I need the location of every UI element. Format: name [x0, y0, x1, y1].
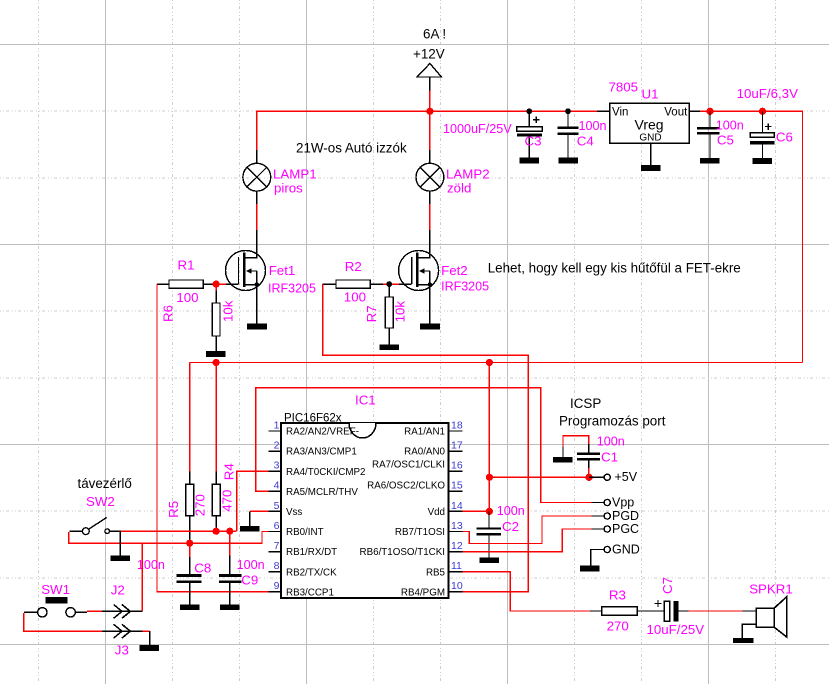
ground (R6) — [206, 351, 226, 357]
capacitor C2 (100n) — [477, 511, 502, 557]
label IC1 — [355, 393, 376, 408]
ground (C1) — [553, 457, 573, 463]
svg-text:C5: C5 — [717, 133, 734, 148]
svg-text:C1: C1 — [601, 449, 618, 464]
label Fet2 — [441, 263, 489, 294]
node C1 +5V junction — [585, 474, 592, 481]
svg-text:IRF3205: IRF3205 — [441, 280, 489, 294]
wire MCLR net (pin4 to Vpp) — [256, 388, 592, 503]
label PIC16F62x — [284, 413, 342, 425]
ground (SW2) — [111, 531, 130, 561]
svg-text:15: 15 — [451, 480, 463, 492]
capacitor C3 (1000uF/25V) — [517, 111, 542, 157]
svg-text:1: 1 — [274, 419, 280, 431]
svg-text:Fet1: Fet1 — [269, 263, 296, 278]
label 7805 — [609, 80, 639, 95]
svg-text:R3: R3 — [609, 588, 626, 603]
svg-text:U1: U1 — [642, 87, 659, 102]
svg-text:Lehet, hogy kell egy kis hűtőf: Lehet, hogy kell egy kis hűtőfül a FET-e… — [488, 260, 741, 275]
label U1 — [642, 87, 659, 102]
label C5 — [717, 133, 734, 148]
svg-text:J3: J3 — [115, 642, 129, 657]
wire SW1 to J3 — [24, 613, 103, 631]
node Fet2 gate junction — [386, 281, 392, 287]
svg-text:100: 100 — [344, 290, 366, 305]
svg-text:Vpp: Vpp — [612, 496, 634, 510]
label SPKR1 — [749, 581, 793, 596]
label R6 — [161, 300, 236, 322]
wire RB6 net (pin12 to PGC) — [462, 529, 591, 552]
pin Vpp — [592, 496, 635, 510]
switch SW2 — [70, 517, 121, 534]
svg-text:GND: GND — [639, 133, 661, 144]
label C6 — [776, 130, 793, 145]
label C1 — [601, 449, 618, 464]
svg-text:PGC: PGC — [612, 522, 639, 536]
wire R1 to Fet1 gate — [216, 283, 226, 285]
svg-text:Vdd: Vdd — [428, 507, 445, 518]
ground (C6) — [753, 158, 773, 164]
label 100n (C5) — [716, 119, 744, 133]
svg-text:100n: 100n — [579, 119, 607, 133]
node R4 bottom junction — [213, 528, 220, 535]
svg-text:Fet2: Fet2 — [441, 263, 468, 278]
label 1000uF/25V — [443, 122, 512, 136]
pin GND (ICSP) — [591, 543, 640, 566]
label C2 — [502, 519, 519, 534]
svg-text:RA1/AN1: RA1/AN1 — [404, 427, 445, 438]
node C6 junction — [759, 108, 766, 115]
ground (J3) — [140, 631, 160, 651]
svg-text:C6: C6 — [776, 130, 793, 145]
svg-text:RA7/OSC1/CLKI: RA7/OSC1/CLKI — [372, 460, 445, 471]
svg-text:2: 2 — [274, 440, 280, 452]
regulator U1 7805 — [597, 103, 701, 165]
label SW2 — [86, 494, 115, 509]
svg-text:PIC16F62x: PIC16F62x — [284, 413, 342, 425]
label C9 — [241, 572, 258, 587]
resistor R7 (10k) — [385, 284, 393, 344]
svg-text:C8: C8 — [194, 560, 211, 575]
svg-text:11: 11 — [451, 560, 462, 572]
svg-text:100n: 100n — [597, 434, 625, 448]
ground (Vss) — [240, 511, 260, 531]
svg-text:10uF/6,3V: 10uF/6,3V — [737, 86, 798, 101]
svg-text:RB7/T1OSI: RB7/T1OSI — [395, 527, 445, 538]
label R1 — [176, 257, 198, 305]
svg-text:C4: C4 — [577, 134, 594, 149]
svg-text:6A !: 6A ! — [423, 27, 446, 42]
ground (SPKR1) — [733, 638, 753, 643]
node C9 top junction — [226, 528, 233, 535]
wire RA4 net (pin3 to switch line) — [237, 471, 269, 531]
wire C7 to SPKR1 — [689, 610, 743, 612]
svg-text:RA5/MCLR/THV: RA5/MCLR/THV — [286, 487, 358, 498]
svg-text:9: 9 — [274, 580, 280, 592]
svg-text:10: 10 — [451, 580, 463, 592]
svg-text:RB5: RB5 — [426, 567, 446, 578]
svg-text:270: 270 — [607, 619, 629, 634]
svg-text:RA2/AN2/VREF-: RA2/AN2/VREF- — [286, 427, 359, 438]
svg-text:távezérlő: távezérlő — [78, 476, 132, 491]
svg-text:C2: C2 — [502, 519, 519, 534]
node Fet1 gate junction — [213, 281, 220, 288]
label 100n (C9) — [237, 558, 265, 572]
label 21W-os Auto izzok — [296, 140, 407, 155]
wire RB4 net (pin10 to R2) — [323, 284, 529, 592]
svg-text:LAMP1: LAMP1 — [273, 167, 317, 182]
svg-text:SW2: SW2 — [86, 494, 115, 509]
svg-text:17: 17 — [451, 440, 463, 452]
svg-text:zöld: zöld — [447, 181, 471, 196]
svg-text:R4: R4 — [222, 463, 237, 480]
node C5 junction — [706, 108, 713, 115]
svg-text:100n: 100n — [237, 558, 265, 572]
svg-text:470: 470 — [219, 490, 234, 512]
wire RB0 net (pin6 jog) — [69, 532, 269, 544]
svg-text:RB4/PGM: RB4/PGM — [401, 587, 445, 598]
transistor Fet2 IRF3205 — [399, 230, 439, 323]
label C4 — [577, 134, 594, 149]
svg-text:IC1: IC1 — [355, 393, 376, 408]
resistor R6 (10k) — [212, 284, 220, 351]
wire RB5 net (pin11 to R3) — [462, 572, 590, 611]
svg-text:PGD: PGD — [612, 509, 639, 523]
label LAMP1 — [273, 167, 317, 196]
wire +5V to ICSP — [489, 476, 589, 478]
wire +12V bus left (to 7805 Vin) — [257, 111, 597, 151]
transistor Fet1 IRF3205 — [226, 230, 266, 323]
svg-text:21W-os Autó izzók: 21W-os Autó izzók — [296, 140, 407, 155]
svg-text:GND: GND — [612, 543, 640, 557]
label C8 — [194, 560, 211, 575]
label ICSP — [570, 396, 601, 411]
connector J3 — [102, 624, 142, 638]
label Programozas port — [559, 414, 666, 429]
svg-text:R7: R7 — [364, 305, 379, 322]
svg-text:RA6/OSC2/CLKO: RA6/OSC2/CLKO — [367, 480, 445, 491]
svg-text:ICSP: ICSP — [570, 396, 601, 411]
supply +12V symbol — [413, 47, 445, 92]
svg-text:RA4/T0CKI/CMP2: RA4/T0CKI/CMP2 — [286, 467, 366, 478]
label 10uF/6,3V — [737, 86, 798, 101]
svg-text:3: 3 — [274, 460, 280, 472]
svg-text:Programozás port: Programozás port — [559, 414, 666, 429]
svg-text:18: 18 — [451, 419, 463, 431]
pin PGC — [592, 522, 640, 536]
svg-text:RB6/T1OSO/T1CKI: RB6/T1OSO/T1CKI — [360, 547, 445, 558]
svg-text:7805: 7805 — [609, 80, 639, 95]
svg-text:100: 100 — [176, 290, 198, 305]
ground (C5) — [700, 158, 720, 164]
node R5 bottom junction — [186, 540, 193, 547]
resistor R2 (100) — [323, 280, 383, 288]
node Vdd riser junction — [486, 359, 493, 366]
svg-text:R6: R6 — [161, 305, 176, 322]
svg-text:Vreg: Vreg — [635, 117, 664, 133]
ground (C9) — [220, 604, 240, 610]
resistor R5 (270) — [186, 472, 194, 544]
IC U1 PIC16F62x body — [269, 423, 463, 598]
svg-text:10k: 10k — [221, 300, 236, 322]
node +5V rail tap — [486, 474, 493, 481]
node C4 junction — [565, 108, 571, 114]
wire SW1 to J2 — [87, 610, 103, 612]
svg-text:R1: R1 — [178, 257, 195, 272]
capacitor C9 (100n) — [219, 531, 242, 604]
resistor R3 (270) — [590, 607, 650, 616]
pin PGD — [592, 509, 640, 523]
wire Vss (pin5) — [250, 510, 269, 512]
label R7 — [364, 301, 408, 323]
svg-text:+12V: +12V — [413, 47, 445, 62]
label R4 — [219, 463, 236, 512]
svg-text:Vin: Vin — [612, 106, 628, 118]
label C3 — [525, 134, 542, 149]
wire R4 top lead — [215, 363, 217, 472]
speaker SPKR1 — [742, 597, 786, 638]
wire LAMP2 riser — [429, 111, 431, 151]
label 100n (C4) — [579, 119, 607, 133]
svg-text:Vout: Vout — [664, 106, 688, 118]
svg-text:SPKR1: SPKR1 — [749, 581, 793, 596]
svg-text:10uF/25V: 10uF/25V — [647, 622, 705, 637]
svg-text:R2: R2 — [345, 259, 362, 274]
resistor R1 (100) — [157, 280, 216, 288]
wire Vdd (pin14) — [462, 510, 489, 512]
label J2 — [111, 583, 125, 598]
wire J2 riser — [141, 543, 143, 611]
svg-text:LAMP2: LAMP2 — [446, 167, 490, 182]
label 6A ! — [423, 27, 446, 42]
svg-text:6: 6 — [274, 520, 280, 532]
svg-text:100n: 100n — [716, 119, 744, 133]
label R3 — [607, 588, 629, 634]
svg-text:7: 7 — [274, 540, 280, 552]
capacitor C5 (100n) — [697, 111, 720, 158]
ground (Fet2 source) — [420, 323, 440, 329]
wire LAMP2 to Fet2 drain — [429, 204, 431, 230]
svg-text:5: 5 — [274, 500, 280, 512]
svg-text:14: 14 — [451, 500, 463, 512]
svg-text:13: 13 — [451, 520, 463, 532]
ground (C4) — [558, 158, 578, 164]
wire +5V rail horizontal — [190, 362, 803, 364]
node C3 junction — [526, 108, 532, 114]
wire SW2 to RA4 line — [121, 530, 237, 532]
svg-text:C9: C9 — [241, 572, 258, 587]
ground (C3) — [520, 158, 540, 164]
svg-text:R5: R5 — [166, 501, 181, 518]
svg-text:100n: 100n — [497, 504, 525, 518]
IC1 pin numbers and names — [274, 419, 463, 598]
svg-text:C7: C7 — [660, 577, 675, 594]
svg-text:RB2/TX/CK: RB2/TX/CK — [286, 567, 337, 578]
capacitor C8 (100n) — [177, 543, 202, 604]
svg-text:RB3/CCP1: RB3/CCP1 — [286, 587, 334, 598]
capacitor C7 (10uF/25V) — [650, 600, 689, 621]
svg-text:16: 16 — [451, 460, 463, 472]
label R2 — [344, 259, 366, 305]
label SW1 — [41, 582, 70, 597]
label R5 — [166, 494, 207, 518]
comment Lehet hogy kell... — [488, 260, 741, 275]
wire Vdd riser — [488, 363, 490, 514]
svg-text:RA3/AN3/CMP1: RA3/AN3/CMP1 — [286, 447, 357, 458]
svg-text:1000uF/25V: 1000uF/25V — [443, 122, 512, 136]
svg-text:+5V: +5V — [615, 470, 638, 484]
lamp LAMP1 — [243, 150, 271, 204]
svg-text:RA0/AN0: RA0/AN0 — [404, 447, 445, 458]
resistor R4 (470) — [212, 472, 220, 532]
wire RB3 net (pin9 to R1) — [157, 284, 269, 592]
wire RB7 net (pin13 to PGD) — [462, 516, 591, 544]
svg-text:4: 4 — [274, 480, 280, 492]
svg-text:IRF3205: IRF3205 — [268, 281, 316, 295]
wire R5 top lead — [189, 363, 191, 472]
label 100n (C8) — [137, 558, 165, 572]
svg-text:SW1: SW1 — [41, 582, 70, 597]
capacitor C6 (10uF/6,3V) — [750, 111, 774, 158]
ground (C8) — [180, 604, 200, 610]
wire +12V stem — [429, 91, 431, 112]
label 100n (C1) — [597, 434, 625, 448]
node Vdd junction — [486, 508, 493, 515]
svg-text:piros: piros — [274, 181, 303, 196]
wire LAMP1 to Fet1 drain — [256, 204, 258, 230]
label C7 — [660, 577, 675, 594]
label Fet1 — [268, 263, 316, 295]
label 100n (C2) — [497, 504, 525, 518]
node R4 top junction — [213, 359, 220, 366]
svg-text:RB0/INT: RB0/INT — [286, 527, 324, 538]
svg-text:C3: C3 — [525, 134, 542, 149]
capacitor C4 (100n) — [558, 111, 579, 157]
svg-text:12: 12 — [451, 540, 463, 552]
ground (Fet1 source) — [247, 323, 267, 329]
switch SW1 — [24, 597, 87, 617]
svg-text:100n: 100n — [137, 558, 165, 572]
connector J2 — [102, 605, 142, 619]
label tavezerlo — [78, 476, 132, 491]
ground (R7) — [379, 344, 399, 350]
lamp LAMP2 — [416, 150, 444, 204]
wire R2 to Fet2 gate — [383, 283, 399, 285]
ground (ICSP) — [580, 566, 600, 572]
svg-text:Vss: Vss — [286, 507, 302, 518]
label LAMP2 — [446, 167, 490, 196]
pin +5V — [589, 470, 638, 484]
label J3 — [115, 642, 129, 657]
capacitor C1 (100n) — [563, 436, 600, 477]
svg-text:J2: J2 — [111, 583, 125, 598]
label 10uF/25V — [647, 622, 705, 637]
node +12V junction — [426, 108, 433, 115]
wire J3 to ground — [142, 630, 149, 632]
wire 7805 Vout to +5V rail — [700, 111, 803, 362]
svg-text:10k: 10k — [392, 301, 407, 323]
svg-text:RB1/RX/DT: RB1/RX/DT — [286, 547, 337, 558]
ground (C2) — [479, 557, 499, 563]
ground (U1) — [641, 165, 661, 171]
svg-text:8: 8 — [274, 560, 280, 572]
svg-text:270: 270 — [193, 494, 208, 516]
